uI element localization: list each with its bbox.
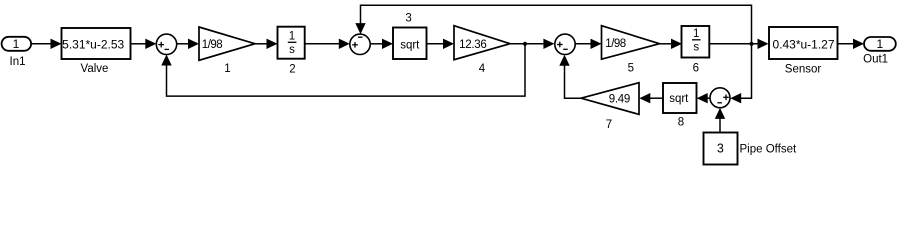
sum junction S4	[710, 88, 730, 108]
wire gain4 to sum3 with junction	[510, 39, 554, 49]
wire sum3 to gain5	[575, 39, 601, 49]
wire sqrt8 to gain7	[639, 93, 663, 103]
block Sensor	[769, 27, 838, 75]
sum junction S1	[156, 34, 176, 54]
wire inner feedback bottom-left: junction after gain4 down, across, up into sum1	[161, 44, 525, 96]
svg-text:1: 1	[876, 37, 883, 51]
svg-text:In1: In1	[10, 56, 26, 68]
gain 7 (9.49) left-pointing	[581, 83, 639, 131]
wire Sensor to Out1	[838, 39, 865, 49]
outport Out1	[863, 37, 896, 65]
svg-text:Valve: Valve	[81, 63, 109, 75]
block Valve	[62, 28, 131, 75]
svg-text:5.31*u-2.53: 5.31*u-2.53	[62, 37, 124, 51]
svg-text:8: 8	[678, 117, 684, 129]
wire right feedback: junction down then left into sum4	[730, 44, 751, 104]
svg-text:6: 6	[693, 63, 699, 75]
svg-text:2: 2	[289, 63, 295, 75]
svg-text:9.49: 9.49	[609, 94, 630, 106]
integrator 2 (1/s)	[278, 27, 305, 76]
svg-text:1: 1	[224, 63, 230, 75]
svg-text:s: s	[693, 42, 699, 54]
svg-text:Pipe Offset: Pipe Offset	[740, 144, 797, 156]
wire sum1 to gain1	[177, 39, 199, 49]
svg-text:sqrt: sqrt	[669, 93, 689, 105]
wire sqrt3 to gain4	[427, 39, 455, 49]
integrator 6 (1/s)	[682, 26, 710, 75]
svg-text:Sensor: Sensor	[785, 63, 822, 75]
sum junction S3	[555, 34, 575, 54]
wire gain7 left then up into sum3	[559, 55, 581, 98]
svg-text:1: 1	[289, 31, 295, 43]
block sqrt 3	[393, 12, 427, 59]
wire sum4 to sqrt8	[697, 93, 710, 103]
inport In1	[2, 37, 32, 68]
wire integrator2 to sum2	[305, 39, 350, 49]
gain 5 (1/98)	[602, 26, 660, 75]
svg-text:Out1: Out1	[863, 53, 888, 65]
sum junction S2	[350, 34, 370, 54]
wire gain1 to integrator2	[255, 39, 278, 49]
constant block 3 Pipe Offset	[704, 133, 797, 165]
svg-text:3: 3	[405, 12, 411, 24]
wire Valve to sum1	[131, 39, 157, 49]
svg-text:4: 4	[479, 63, 486, 75]
svg-text:1: 1	[693, 28, 699, 40]
gain 1 (1/98)	[199, 27, 255, 75]
block sqrt 8	[663, 83, 697, 129]
wire In1 to Valve	[31, 39, 61, 49]
svg-text:sqrt: sqrt	[400, 40, 420, 52]
wire gain5 to integrator6	[660, 39, 683, 49]
svg-text:7: 7	[606, 119, 612, 131]
svg-text:12.36: 12.36	[459, 39, 486, 51]
wire Pipe Offset up into sum4	[715, 108, 725, 133]
svg-text:s: s	[289, 44, 295, 56]
svg-text:1/98: 1/98	[605, 38, 625, 50]
svg-text:3: 3	[717, 142, 724, 156]
wire integrator6 to Sensor with junction	[709, 39, 768, 49]
svg-text:1/98: 1/98	[202, 39, 222, 51]
wire outer feedback top: junction right up, across, down into sum2	[355, 5, 751, 44]
svg-text:5: 5	[628, 63, 634, 75]
svg-text:0.43*u-1.27: 0.43*u-1.27	[772, 38, 834, 52]
wire sum2 to sqrt3	[370, 39, 393, 49]
svg-text:1: 1	[13, 37, 20, 51]
gain 4 (12.36)	[454, 26, 510, 75]
